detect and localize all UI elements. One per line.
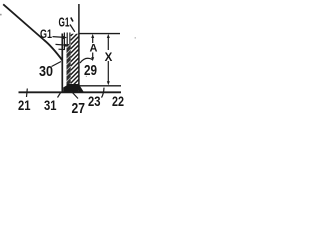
svg-text:21: 21	[18, 97, 31, 113]
svg-text:X: X	[105, 52, 113, 64]
svg-text:30: 30	[39, 64, 53, 80]
svg-text:G1: G1	[40, 27, 52, 41]
svg-text:23: 23	[88, 93, 101, 109]
svg-text:31: 31	[44, 97, 57, 113]
svg-text:A: A	[90, 43, 98, 55]
svg-text:G1: G1	[59, 15, 70, 30]
svg-text:27: 27	[72, 101, 86, 117]
svg-text:22: 22	[112, 93, 124, 109]
